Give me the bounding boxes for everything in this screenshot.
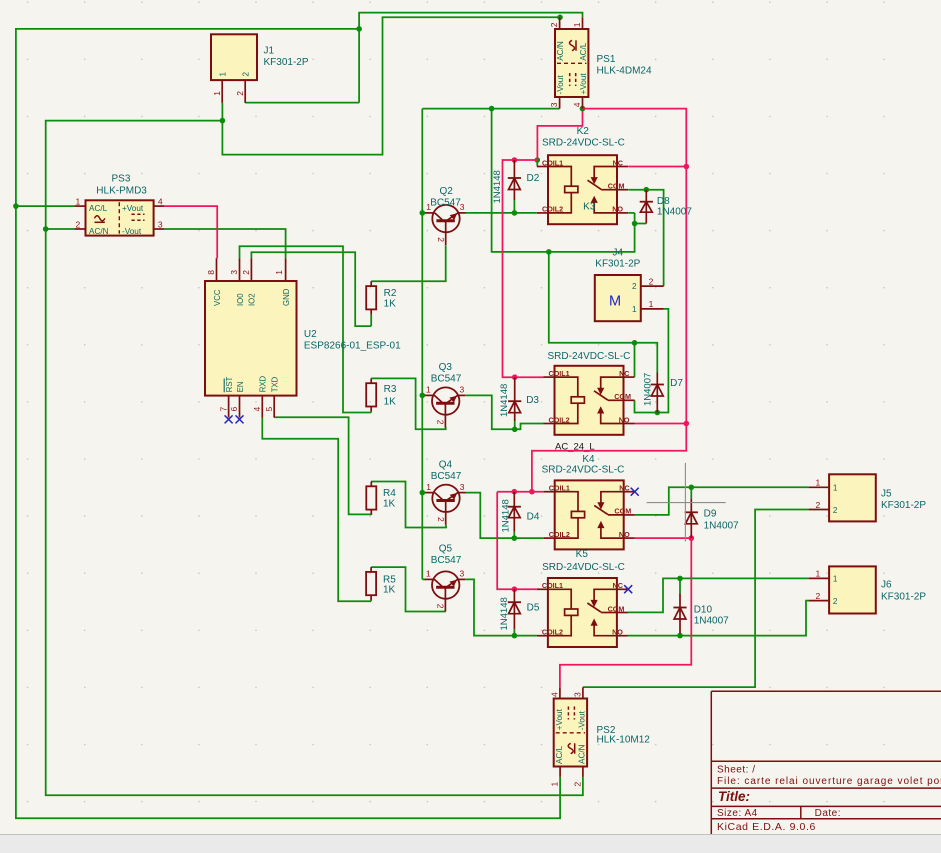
junction D8 bottom	[632, 221, 638, 227]
svg-text:COIL1: COIL1	[549, 369, 570, 378]
svg-text:BC547: BC547	[431, 555, 462, 566]
cursor crosshair	[647, 502, 726, 504]
svg-text:D3: D3	[526, 395, 539, 406]
svg-text:1K: 1K	[384, 298, 397, 309]
svg-text:COIL2: COIL2	[542, 205, 563, 214]
wire D3 bottom	[514, 421, 516, 429]
svg-text:3: 3	[460, 385, 465, 395]
diode D10	[679, 594, 681, 634]
junction AC/N PS3	[43, 226, 49, 232]
no-connect U2 EN	[236, 415, 244, 423]
svg-text:COIL1: COIL1	[542, 158, 563, 167]
svg-text:2: 2	[573, 782, 583, 787]
svg-text:EN: EN	[236, 381, 245, 392]
svg-text:3: 3	[573, 692, 583, 697]
svg-text:1: 1	[426, 385, 431, 395]
svg-text:Q3: Q3	[439, 362, 453, 373]
wire J1 pin2 to PS1	[245, 102, 359, 104]
diode D2	[513, 160, 515, 200]
svg-text:AC/L: AC/L	[89, 204, 108, 213]
svg-text:1N4148: 1N4148	[499, 597, 510, 630]
wire D10 top link	[679, 578, 681, 593]
svg-text:HLK-10M12: HLK-10M12	[597, 735, 651, 746]
svg-text:PS1: PS1	[597, 54, 616, 65]
svg-text:2: 2	[816, 591, 821, 601]
junction -Vout	[489, 106, 495, 112]
svg-text:D7: D7	[670, 378, 683, 389]
svg-text:1K: 1K	[384, 397, 397, 408]
svg-text:1: 1	[219, 72, 228, 77]
svg-text:1: 1	[816, 569, 821, 579]
svg-text:4: 4	[252, 407, 262, 412]
svg-text:1: 1	[550, 782, 560, 787]
svg-text:4: 4	[550, 692, 560, 697]
svg-text:COIL2: COIL2	[549, 530, 570, 539]
svg-text:KiCad E.D.A. 9.0.6: KiCad E.D.A. 9.0.6	[717, 821, 816, 833]
svg-text:AC/L: AC/L	[555, 745, 564, 764]
junction Q3 base	[420, 393, 426, 399]
wire K5 NO to J6 pin2	[628, 601, 809, 636]
connector J6	[809, 566, 876, 613]
junction D2 top	[512, 157, 518, 163]
power supply PS2	[550, 687, 588, 786]
svg-text:1: 1	[76, 196, 81, 206]
svg-text:AC/L: AC/L	[579, 42, 588, 61]
svg-text:D2: D2	[527, 173, 540, 184]
wire AC/L top loop	[359, 13, 582, 103]
no-connect K5 NC	[624, 585, 632, 593]
svg-text:2: 2	[833, 506, 838, 515]
svg-text:1: 1	[632, 305, 637, 314]
junction Q4 base	[420, 490, 426, 496]
wire R3 bottom stub	[370, 411, 372, 414]
junction D7 bottom	[655, 410, 661, 416]
junction K2 NO branch	[546, 249, 552, 255]
svg-text:VCC: VCC	[213, 289, 222, 306]
svg-text:COIL2: COIL2	[549, 415, 570, 424]
svg-text:2: 2	[549, 22, 559, 27]
resistor R4 body	[370, 482, 372, 487]
svg-text:1: 1	[572, 22, 582, 27]
svg-text:J6: J6	[881, 580, 892, 591]
svg-text:2: 2	[632, 282, 637, 291]
svg-text:R3: R3	[384, 384, 397, 395]
svg-text:M: M	[609, 294, 621, 310]
svg-text:ESP8266-01_ESP-01: ESP8266-01_ESP-01	[304, 341, 401, 352]
svg-text:COIL1: COIL1	[542, 581, 563, 590]
svg-text:3: 3	[460, 569, 465, 579]
svg-text:-Vout: -Vout	[556, 75, 565, 95]
svg-text:1: 1	[833, 484, 838, 493]
svg-text:IO0: IO0	[236, 293, 245, 306]
diode D7	[656, 373, 658, 413]
ic U2 ESP8266	[205, 258, 297, 417]
svg-text:SRD-24VDC-SL-C: SRD-24VDC-SL-C	[542, 464, 625, 475]
wire D8 bottom link	[635, 223, 647, 225]
junction D8 top	[644, 187, 650, 193]
svg-text:1: 1	[426, 569, 431, 579]
svg-text:Date:: Date:	[815, 808, 841, 819]
svg-text:COIL2: COIL2	[542, 628, 563, 637]
svg-text:U2: U2	[304, 329, 317, 340]
wire K4 NO to PS2 +Vout	[560, 538, 691, 687]
svg-text:-Vout: -Vout	[122, 227, 142, 236]
svg-text:NO: NO	[619, 530, 630, 539]
svg-text:D5: D5	[527, 603, 540, 614]
wire K5 COM to J6 pin1	[628, 578, 809, 612]
svg-text:Q2: Q2	[440, 186, 454, 197]
svg-text:1K: 1K	[383, 499, 396, 510]
svg-text:J4: J4	[613, 248, 624, 259]
svg-text:COM: COM	[614, 507, 631, 516]
wire Q2 collector to K2 COIL2	[466, 212, 537, 214]
wire R5 top to Q5 emitter	[371, 567, 446, 611]
svg-text:KF301-2P: KF301-2P	[264, 57, 309, 68]
junction D9 top	[689, 485, 695, 491]
svg-text:D10: D10	[694, 605, 713, 616]
svg-text:NO: NO	[612, 205, 623, 214]
svg-text:KF301-2P: KF301-2P	[881, 500, 926, 511]
wire R3 top to Q3 emitter	[371, 378, 446, 429]
wire AC/L left trunk	[16, 29, 560, 818]
junction K2 NC trunk	[684, 164, 690, 170]
svg-text:AC/N: AC/N	[578, 744, 587, 764]
wire K3 COM to J4 pin1	[635, 309, 669, 413]
wire -Vout main	[422, 108, 559, 110]
wire R2 top to Q2 emitter	[371, 245, 446, 281]
relay K3 body	[544, 366, 635, 435]
junction D5 top	[512, 586, 518, 592]
svg-text:GND: GND	[282, 288, 291, 306]
svg-text:2: 2	[235, 91, 245, 96]
junction K3 NO trunk	[684, 421, 690, 427]
svg-text:Q5: Q5	[439, 544, 453, 555]
diode D9	[690, 498, 692, 538]
junction D4 top	[512, 489, 518, 495]
svg-text:SRD-24VDC-SL-C: SRD-24VDC-SL-C	[542, 562, 625, 573]
wire K2 COM to J4 pin2	[628, 190, 663, 286]
no-connect U2 RST	[225, 415, 233, 423]
diode D8	[645, 190, 647, 224]
resistor R5 body	[370, 567, 372, 572]
svg-text:D4: D4	[527, 511, 540, 522]
svg-text:1N4148: 1N4148	[492, 170, 503, 203]
transistor Q5	[425, 569, 466, 612]
svg-text:7: 7	[218, 407, 228, 412]
wire J1 pin1 down	[222, 17, 560, 154]
junction AC/L PS3	[13, 203, 19, 209]
svg-text:Title:: Title:	[718, 789, 750, 804]
svg-text:COIL1: COIL1	[549, 484, 570, 493]
svg-text:Size: A4: Size: A4	[717, 808, 758, 819]
svg-text:HLK-PMD3: HLK-PMD3	[96, 185, 147, 196]
svg-text:R2: R2	[384, 288, 397, 299]
wire D5 bottom	[513, 629, 515, 635]
wire U2 RXD to R5 bottom	[262, 418, 371, 602]
svg-text:K3: K3	[583, 202, 596, 213]
resistor R3 body	[370, 378, 372, 383]
svg-text:NO: NO	[612, 628, 623, 637]
svg-text:SRD-24VDC-SL-C: SRD-24VDC-SL-C	[548, 351, 631, 362]
wire K4 COM to J5 pin1	[635, 487, 809, 515]
svg-text:KF301-2P: KF301-2P	[595, 258, 640, 269]
junction D3 bottom	[512, 427, 518, 433]
svg-text:3: 3	[460, 482, 465, 492]
wire D10 bottom link	[679, 634, 681, 636]
junction D4 bottom	[512, 535, 518, 541]
svg-text:NC: NC	[613, 158, 623, 167]
svg-text:3: 3	[549, 102, 559, 107]
svg-text:HLK-4DM24: HLK-4DM24	[597, 65, 652, 76]
svg-text:COM: COM	[608, 182, 625, 191]
wire PS3 AC/N	[46, 228, 75, 230]
svg-text:4: 4	[572, 102, 582, 107]
svg-text:COM: COM	[614, 392, 631, 401]
svg-text:File: carte relai ouverture ga: File: carte relai ouverture garage volet…	[717, 776, 941, 787]
svg-text:BC547: BC547	[431, 374, 462, 385]
svg-text:3: 3	[229, 270, 239, 275]
wire D9 top link	[690, 487, 692, 498]
relay K2 body	[537, 155, 628, 224]
junction K3 NC	[632, 340, 638, 346]
junction D9 bottom	[689, 535, 695, 541]
svg-text:2: 2	[436, 517, 446, 522]
wire K3 NO to trunk	[635, 423, 687, 425]
svg-text:AC/N: AC/N	[89, 227, 109, 236]
svg-text:1K: 1K	[383, 584, 396, 595]
transistor Q3	[425, 385, 466, 428]
wire PS3 +Vout to U2 VCC	[164, 206, 217, 258]
svg-text:1: 1	[833, 575, 838, 584]
wire trunk to Q5 base	[422, 578, 425, 580]
junction K2 COIL1	[535, 157, 541, 163]
svg-text:2: 2	[436, 420, 446, 425]
svg-text:D9: D9	[704, 509, 717, 520]
svg-text:2: 2	[76, 219, 81, 229]
title block frame	[711, 691, 941, 834]
wire K3 NC up	[634, 343, 636, 377]
junction D2 bottom	[512, 210, 518, 216]
svg-text:PS3: PS3	[112, 174, 131, 185]
wire D2 bottom	[513, 200, 515, 213]
svg-text:BC547: BC547	[431, 471, 462, 482]
svg-text:K5: K5	[576, 549, 589, 560]
svg-text:2: 2	[816, 500, 821, 510]
svg-text:TXD: TXD	[271, 376, 280, 392]
wire AC/N left trunk	[46, 121, 583, 796]
svg-text:Sheet: /: Sheet: /	[717, 764, 755, 775]
wire +24V to D2 D3 column	[503, 160, 544, 377]
wire U2 IO0 to R3 bottom	[240, 246, 372, 412]
wire Q5 collector to K5 COIL2	[465, 579, 537, 635]
svg-text:AC/N: AC/N	[556, 41, 565, 61]
svg-text:K2: K2	[577, 126, 590, 137]
wire K2 COIL1 jog	[536, 160, 538, 167]
svg-text:1: 1	[816, 478, 821, 488]
bottom gray bar	[0, 835, 941, 853]
svg-text:2: 2	[649, 276, 654, 286]
wire R5 bottom stub	[370, 599, 372, 602]
svg-text:+Vout: +Vout	[579, 73, 588, 95]
svg-text:6: 6	[229, 407, 239, 412]
wire J5 pin2 to PS2 pin3	[583, 510, 809, 688]
svg-text:3: 3	[158, 219, 163, 229]
wire K2 NC to trunk	[628, 166, 686, 168]
junction J1 pin1	[220, 118, 226, 124]
diode D4	[513, 492, 515, 532]
svg-text:R4: R4	[383, 488, 396, 499]
wire R4 top to Q4 emitter	[371, 482, 446, 528]
svg-text:8: 8	[206, 270, 216, 275]
svg-text:1N4007: 1N4007	[657, 206, 692, 217]
wire branch to K3 NC and D7	[549, 252, 658, 373]
svg-text:2: 2	[833, 597, 838, 606]
svg-text:J5: J5	[881, 489, 892, 500]
diode D3	[514, 377, 516, 421]
transistor Q2	[425, 202, 466, 245]
resistor R2 body	[370, 281, 372, 286]
svg-text:NC: NC	[619, 369, 629, 378]
wire PS3 AC/L	[16, 205, 75, 207]
svg-text:+Vout: +Vout	[555, 708, 564, 730]
connector J1	[211, 34, 257, 103]
svg-text:BC547: BC547	[430, 197, 461, 208]
connector J5	[809, 474, 876, 521]
junction AC/L	[356, 26, 362, 32]
svg-text:1: 1	[426, 482, 431, 492]
wire R4 bottom stub	[370, 513, 372, 515]
wire D4 bottom	[513, 532, 515, 538]
wire K2 NO stub link	[628, 212, 634, 214]
wire Q3 collector to K3 COIL2	[465, 395, 543, 429]
svg-text:1N4007: 1N4007	[704, 521, 739, 532]
diode D5	[513, 589, 515, 629]
wire -Vout to K2 NO net	[492, 109, 635, 252]
wire +24V trunk right	[532, 109, 686, 492]
wire PS1 +Vout to K2 COIL1	[537, 109, 582, 160]
svg-text:1N4007: 1N4007	[694, 616, 729, 627]
relay K5 body	[537, 578, 628, 647]
junction D5 bottom	[512, 633, 518, 639]
junction D10 top	[677, 576, 683, 582]
svg-text:KF301-2P: KF301-2P	[881, 591, 926, 602]
svg-text:D8: D8	[657, 196, 670, 207]
junction PS1 pin2	[557, 14, 563, 20]
svg-text:SRD-24VDC-SL-C: SRD-24VDC-SL-C	[542, 138, 625, 149]
svg-text:1: 1	[274, 270, 284, 275]
svg-text:AC_24_L: AC_24_L	[555, 441, 595, 452]
wire K4 COIL1 row	[497, 491, 544, 493]
svg-text:-Vout: -Vout	[578, 710, 587, 730]
no-connect K4 NC	[631, 488, 639, 496]
svg-text:2: 2	[436, 604, 446, 609]
wire R2 bottom stub	[370, 315, 372, 327]
svg-text:1: 1	[212, 91, 222, 96]
wire Q4 collector to K4 COIL2	[466, 493, 544, 538]
svg-text:RXD: RXD	[259, 375, 268, 392]
svg-text:COM: COM	[608, 604, 625, 613]
wire U2 TXD to R4 bottom	[274, 417, 371, 514]
wire U2 IO2 to R2 bottom	[251, 252, 371, 326]
junction AC_24 drop	[529, 489, 535, 495]
junction PS1 pin4	[580, 106, 586, 112]
svg-text:2: 2	[241, 270, 251, 275]
junction D3 top	[512, 374, 518, 380]
svg-text:2: 2	[242, 72, 251, 77]
svg-text:Q4: Q4	[439, 460, 453, 471]
svg-text:IO2: IO2	[248, 293, 257, 306]
svg-text:1N4148: 1N4148	[499, 384, 510, 417]
wire base trunk	[421, 109, 423, 580]
svg-text:5: 5	[264, 407, 274, 412]
svg-text:1N4148: 1N4148	[500, 499, 511, 532]
power supply PS3	[74, 196, 164, 236]
svg-text:J1: J1	[264, 46, 275, 57]
wire K4 to K5 COIL1	[497, 492, 537, 590]
junction Q2 base	[420, 210, 426, 216]
svg-text:RST: RST	[225, 376, 234, 392]
svg-text:NO: NO	[619, 415, 630, 424]
svg-text:NC: NC	[613, 581, 623, 590]
junction D10 bottom	[677, 633, 683, 639]
relay K4 body	[544, 480, 635, 549]
svg-text:NC: NC	[619, 484, 629, 493]
power supply PS1	[549, 17, 588, 108]
svg-text:+Vout: +Vout	[122, 204, 144, 213]
svg-text:4: 4	[158, 196, 163, 206]
connector J4	[595, 275, 664, 321]
svg-text:2: 2	[436, 237, 446, 242]
wire PS3 -Vout to U2 GND	[164, 229, 285, 258]
transistor Q4	[425, 482, 466, 525]
svg-text:1N4007: 1N4007	[643, 373, 654, 406]
svg-text:1: 1	[649, 299, 654, 309]
